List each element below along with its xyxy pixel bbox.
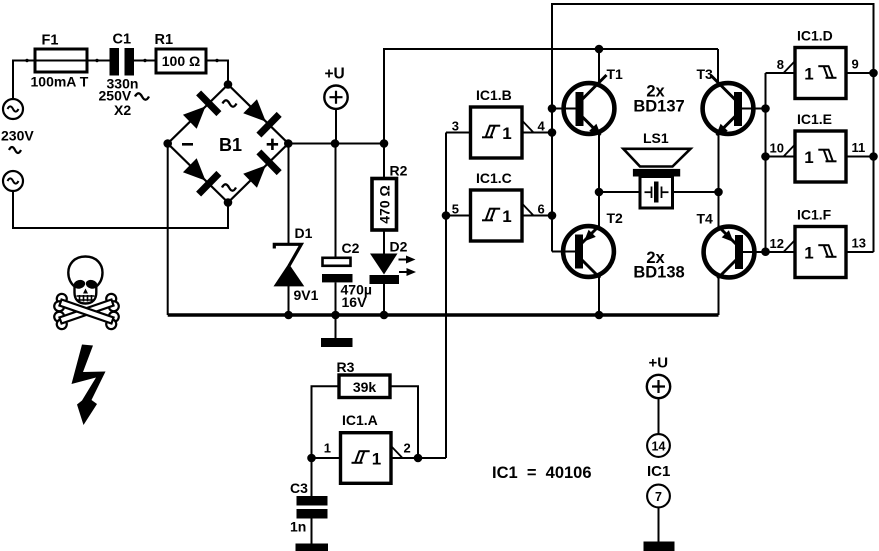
Schmitt inverter IC1.A	[341, 433, 392, 484]
svg-text:1: 1	[804, 148, 813, 167]
svg-text:11: 11	[852, 140, 866, 155]
svg-text:IC1.F: IC1.F	[797, 207, 832, 223]
wire supply rail up and +U distribution rail to transistors	[384, 49, 718, 144]
svg-text:9V1: 9V1	[294, 287, 319, 303]
junction node B1 bottom	[224, 198, 233, 207]
wire node A to loudspeaker	[599, 191, 640, 193]
bridge diode (left to top edge)	[180, 90, 222, 132]
svg-text:7: 7	[655, 490, 662, 504]
pin 8 output wire of IC1.D	[766, 72, 796, 74]
svg-text:12: 12	[770, 236, 784, 251]
junction node IC1.A input / R3 / C3	[307, 454, 316, 463]
danger skull and crossbones symbol	[53, 257, 120, 331]
electrolytic capacitor C2 470u 16V	[323, 258, 351, 266]
junction node B (speaker right)	[714, 188, 723, 197]
capacitor C1 330n X2	[110, 48, 120, 76]
svg-text:C3: C3	[290, 480, 308, 496]
wire R2 to LED D2	[383, 230, 385, 254]
ground rail wire (bottom of left part)	[168, 313, 719, 316]
bridge diode (left to bottom edge)	[180, 155, 222, 197]
svg-text:D1: D1	[295, 225, 313, 241]
wire C3 to ground	[311, 519, 313, 545]
Schmitt inverter IC1.B	[471, 107, 523, 158]
junction node D2 / ground rail	[380, 311, 389, 320]
svg-text:1: 1	[502, 124, 511, 143]
junction node +U rail / T1 collector	[595, 45, 604, 54]
svg-text:F1: F1	[42, 33, 59, 49]
junction node T3 base / bus	[761, 104, 770, 113]
wire B1 plus down to zener D1	[288, 144, 290, 245]
junction node IC1.E output / bus	[761, 152, 770, 161]
svg-text:1: 1	[502, 207, 511, 226]
wire from top AC terminal to fuse F1	[13, 61, 35, 100]
B1 plus polarity mark	[267, 139, 278, 150]
svg-text:1: 1	[804, 244, 813, 263]
junction node A (speaker left)	[595, 188, 604, 197]
svg-text:BD137: BD137	[633, 98, 684, 116]
junction node IC1.D input / right bus	[869, 69, 878, 78]
wire T4 base	[743, 251, 766, 253]
junction node IC1.C output / bus	[548, 211, 557, 220]
svg-text:R3: R3	[337, 359, 355, 375]
Schmitt inverter IC1.F	[795, 227, 846, 278]
wire B1 plus output rail to the right	[288, 143, 384, 145]
wire +U rail to T3 collector	[717, 49, 719, 84]
junction node supply rail / R2 branch	[380, 139, 389, 148]
junction node IC1.C input	[442, 211, 451, 220]
pin 6 output wire of IC1.C	[522, 215, 552, 217]
wire D1 to ground rail	[288, 285, 290, 315]
svg-text:R2: R2	[390, 163, 408, 179]
bridge diode (bottom to right edge)	[240, 149, 282, 191]
LED D2	[370, 254, 398, 275]
B1 AC mark bottom	[222, 184, 236, 190]
svg-text:T4: T4	[697, 211, 714, 227]
B1 minus polarity mark	[182, 143, 193, 146]
high voltage lightning bolt symbol	[72, 345, 106, 426]
loudspeaker LS1	[623, 149, 690, 167]
junction node T4 base / IC1.F output / bus	[761, 247, 770, 256]
resistor R2 470 ohm	[372, 179, 397, 231]
svg-text:B1: B1	[219, 135, 242, 155]
wire bottom AC terminal to bridge B1 bottom (AC node)	[13, 191, 228, 228]
svg-text:3: 3	[452, 119, 459, 134]
pin 10 output wire of IC1.E	[766, 156, 796, 158]
junction node IC1.B output / bus	[548, 128, 557, 137]
junction node D1 / ground rail	[284, 311, 293, 320]
wire node A to T2 emitter	[598, 192, 600, 227]
wire +U rail to T1 collector	[598, 49, 600, 84]
input bus wire from oscillator to IC1.B and IC1.C inputs	[445, 133, 447, 459]
wire C1 to R1	[134, 60, 156, 62]
ground symbol below C3	[296, 544, 329, 551]
pin 11 input wire of IC1.E	[846, 156, 874, 158]
wire T1 base	[552, 108, 576, 110]
svg-text:IC1.B: IC1.B	[476, 87, 512, 103]
capacitor C3 1n	[311, 458, 313, 496]
svg-text:T2: T2	[607, 210, 624, 226]
Schmitt inverter IC1.D	[795, 48, 846, 99]
svg-text:IC1.A: IC1.A	[342, 412, 378, 428]
svg-text:10: 10	[770, 141, 784, 156]
svg-text:6: 6	[538, 202, 545, 217]
pin 9 input wire of IC1.D	[846, 72, 874, 74]
pin 12 output wire of IC1.F	[766, 251, 796, 253]
wire +U to IC1 pin 14	[658, 398, 660, 434]
wire D2 to ground rail	[383, 284, 385, 315]
pin 2 output wire of IC1.A	[391, 457, 446, 459]
wire T3 emitter to node B	[718, 135, 720, 193]
IC1 pin 14 supply pin	[647, 434, 670, 457]
zener diode D1 9V1	[274, 244, 301, 265]
wire supply rail node down to R2	[383, 144, 385, 179]
wire T1 emitter to bridge output node A	[598, 135, 600, 193]
svg-text:1: 1	[324, 441, 331, 456]
svg-text:R1: R1	[155, 32, 174, 48]
svg-text:13: 13	[852, 236, 866, 251]
junction node B1 left	[163, 139, 172, 148]
wire R1 to bridge B1 top (AC node)	[206, 61, 228, 82]
wire supply rail down to C2	[335, 144, 337, 260]
svg-text:9: 9	[852, 57, 859, 72]
bridge rectifier B1 diamond outline	[168, 85, 289, 203]
AC source terminal (top phase)	[3, 99, 23, 119]
wire B1 minus output down to ground rail	[167, 144, 169, 316]
wire T2 base	[552, 251, 576, 253]
pin 5 input wire of IC1.C	[446, 215, 471, 217]
svg-text:X2: X2	[114, 102, 131, 118]
pin 1 input wire of IC1.A	[312, 457, 341, 459]
pin 13 input wire of IC1.F	[846, 251, 874, 253]
svg-text:IC1.E: IC1.E	[797, 111, 832, 127]
transistor T2 PNP BD138	[563, 226, 614, 277]
junction node T1 base / bus	[548, 104, 557, 113]
resistor R3 39k	[339, 375, 390, 398]
svg-text:39k: 39k	[353, 379, 377, 395]
wire T2 collector to ground rail	[598, 277, 600, 316]
B1 AC mark top	[223, 100, 237, 106]
pin 4 output wire of IC1.B	[522, 132, 552, 134]
wire loudspeaker to node B	[673, 191, 719, 193]
junction node supply rail / +U	[331, 139, 340, 148]
LED light arrows	[399, 259, 409, 261]
wire C2 to ground rail	[335, 282, 337, 315]
junction node IC1.A output / R3	[414, 454, 423, 463]
ground symbol below C2	[335, 315, 337, 338]
bridge diode (top to right edge)	[240, 96, 282, 138]
svg-text:IC1: IC1	[647, 463, 670, 480]
svg-text:4: 4	[538, 119, 546, 134]
svg-text:T3: T3	[697, 66, 714, 82]
transistor T1 NPN BD137	[564, 83, 615, 134]
wire T4 collector to ground rail	[718, 277, 720, 315]
wire R3 right to IC1.A output node	[390, 386, 418, 458]
svg-text:100mA T: 100mA T	[31, 74, 89, 90]
wire T3 base	[742, 108, 766, 110]
drive bus for T3/T4 bases (outputs of IC1.D/E/F)	[765, 73, 767, 252]
svg-text:+U: +U	[325, 66, 345, 83]
svg-text:2: 2	[404, 441, 411, 456]
pin 3 input wire of IC1.B	[446, 132, 471, 134]
svg-text:230V: 230V	[1, 128, 34, 144]
svg-text:+U: +U	[649, 355, 669, 372]
wire +U symbol to supply rail	[335, 109, 337, 144]
resistor R1 100 ohm	[156, 49, 206, 73]
base drive bus for T1/T2 (outputs of IC1.B/C) and link to top rail	[552, 4, 874, 252]
svg-text:C2: C2	[342, 240, 360, 256]
svg-text:8: 8	[777, 57, 784, 72]
Schmitt inverter IC1.E	[795, 131, 846, 182]
svg-text:D2: D2	[390, 239, 408, 255]
svg-text:IC1 = 40106: IC1 = 40106	[492, 464, 592, 482]
svg-text:1: 1	[372, 450, 381, 469]
junction node IC1.E input / right bus	[869, 152, 878, 161]
svg-text:100 Ω: 100 Ω	[162, 53, 200, 69]
wire R3 left to IC1.A input node	[312, 386, 340, 458]
junction node T2 collector / ground rail	[595, 311, 604, 320]
svg-text:T1: T1	[607, 66, 624, 82]
AC source terminal (bottom phase)	[3, 171, 23, 191]
svg-text:14: 14	[652, 440, 666, 454]
junction node B1 top	[224, 80, 233, 89]
transistor T4 PNP BD138	[704, 227, 755, 278]
wire pin 7 to ground	[658, 508, 660, 542]
Schmitt inverter IC1.C	[471, 190, 523, 241]
svg-text:BD138: BD138	[633, 264, 684, 282]
wire F1 to C1	[87, 60, 110, 62]
fuse F1	[35, 49, 87, 72]
svg-text:1n: 1n	[290, 519, 306, 535]
junction node C2 / ground rail	[331, 311, 340, 320]
transistor T3 NPN BD137	[703, 83, 754, 134]
svg-text:LS1: LS1	[643, 130, 669, 146]
junction node B1 right	[284, 139, 293, 148]
ground symbol below pin 7	[644, 542, 675, 551]
svg-text:16V: 16V	[342, 294, 368, 310]
svg-text:5: 5	[452, 202, 459, 217]
svg-text:C1: C1	[113, 32, 132, 48]
+U supply symbol	[324, 86, 347, 109]
svg-text:IC1.D: IC1.D	[797, 28, 833, 44]
IC1 pin 7 ground pin	[647, 485, 670, 508]
svg-text:1: 1	[804, 65, 813, 84]
wire node B to T4 emitter	[718, 192, 720, 228]
svg-text:IC1.C: IC1.C	[476, 170, 512, 186]
svg-text:470 Ω: 470 Ω	[377, 185, 393, 223]
